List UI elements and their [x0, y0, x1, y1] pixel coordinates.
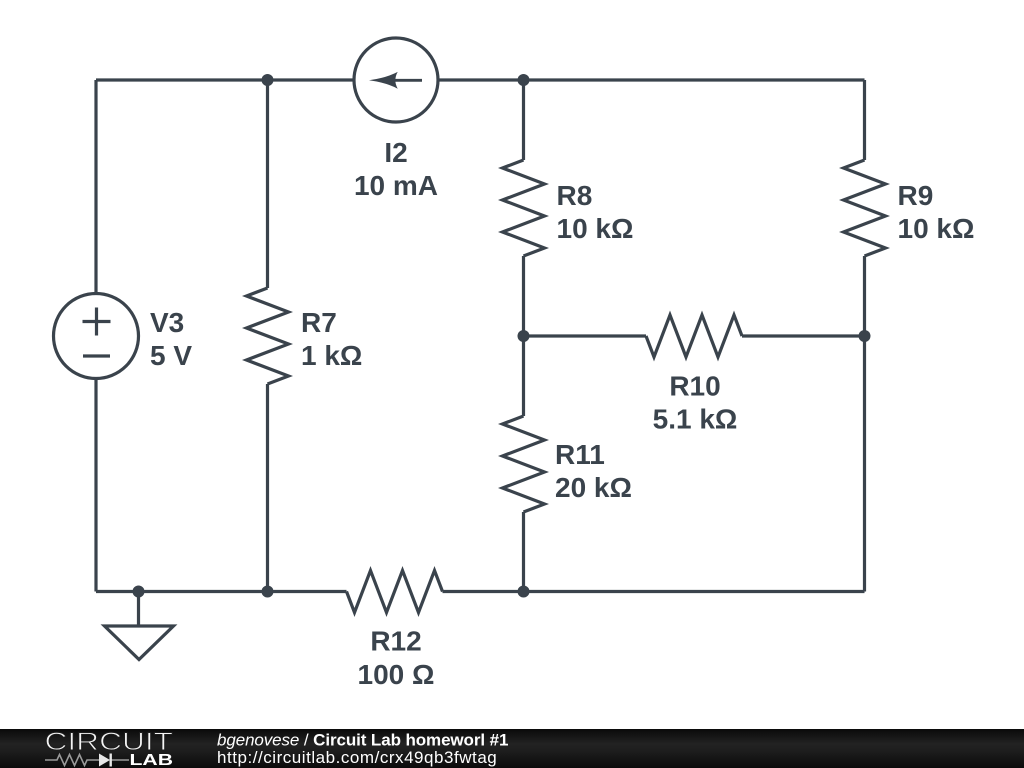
voltage source V3 minus sign	[83, 354, 110, 357]
ground stub wire	[137, 592, 140, 627]
node dot top of R7	[262, 74, 274, 86]
svg-text:R10: R10	[669, 371, 720, 402]
svg-text:R12: R12	[370, 626, 421, 657]
wire bottom right	[443, 590, 865, 593]
voltage source V3 circle	[54, 294, 139, 379]
wire right rail top	[863, 80, 866, 160]
svg-text:5 V: 5 V	[150, 340, 192, 371]
wire middle right	[742, 334, 865, 337]
svg-text:10 mA: 10 mA	[354, 170, 438, 201]
svg-text:bgenovese / Circuit Lab homewo: bgenovese / Circuit Lab homeworl #1	[217, 730, 508, 749]
node dot right R10/R9	[859, 330, 871, 342]
wire middle left	[524, 334, 647, 337]
wire left rail	[94, 80, 97, 592]
node dot middle R8/R10	[518, 330, 530, 342]
svg-text:R11: R11	[555, 439, 605, 470]
ground triangle	[105, 626, 174, 660]
node dot bottom of R7	[262, 586, 274, 598]
svg-text:10 kΩ: 10 kΩ	[898, 213, 975, 244]
wire R11 bottom	[522, 512, 525, 592]
voltage source V3 plus sign	[83, 308, 111, 336]
current source I2 circle	[354, 38, 438, 122]
current source I2 arrow	[369, 72, 422, 89]
wire top rail	[96, 78, 865, 81]
resistor R9	[844, 160, 886, 256]
resistor R11	[503, 416, 545, 512]
svg-text:1 kΩ: 1 kΩ	[301, 340, 362, 371]
svg-text:I2: I2	[384, 137, 407, 168]
node dot top of R8	[518, 74, 530, 86]
logo diode glyph	[99, 754, 112, 767]
svg-text:LAB: LAB	[130, 752, 174, 768]
wire R7 branch top	[266, 80, 269, 288]
svg-text:R9: R9	[898, 180, 934, 211]
wire R8 branch top	[522, 80, 525, 160]
resistor R10	[646, 315, 742, 357]
svg-text:20 kΩ: 20 kΩ	[555, 472, 632, 503]
svg-text:http://circuitlab.com/crx49qb3: http://circuitlab.com/crx49qb3fwtag	[217, 748, 497, 767]
wire right rail bottom	[863, 256, 866, 592]
svg-text:100 Ω: 100 Ω	[358, 659, 435, 690]
wire R8 to middle node	[522, 256, 525, 416]
svg-text:5.1 kΩ: 5.1 kΩ	[653, 404, 738, 435]
node dot bottom of R11	[518, 586, 530, 598]
wire bottom left	[96, 590, 347, 593]
node dot ground	[133, 586, 145, 598]
svg-text:R8: R8	[557, 180, 593, 211]
logo wire and resistor glyph	[45, 755, 129, 766]
svg-text:V3: V3	[150, 307, 184, 338]
svg-text:10 kΩ: 10 kΩ	[557, 213, 634, 244]
footer bar	[0, 729, 1024, 768]
wire R7 branch bottom	[266, 384, 269, 592]
resistor R8	[503, 160, 545, 256]
resistor R12	[347, 571, 443, 613]
svg-text:R7: R7	[301, 307, 337, 338]
resistor R7	[247, 288, 289, 384]
